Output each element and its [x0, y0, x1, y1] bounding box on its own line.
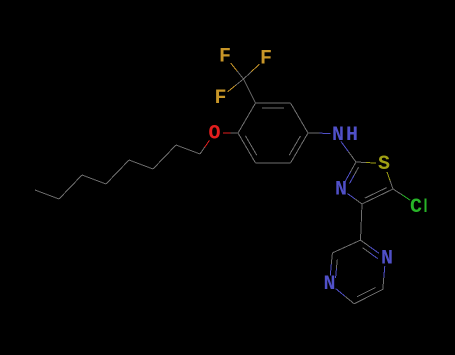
wire: octyl chain bond C5-C6 — [82, 175, 106, 184]
wire: octyl chain bond C6-C7 — [59, 175, 82, 199]
svg-text:F: F — [260, 48, 272, 71]
wire: octyl chain bond C7-C8 — [35, 190, 59, 199]
atom label Cl (l glyph bar) — [425, 199, 427, 213]
wire: thiazole bond C2-S1 — [356, 162, 376, 163]
wire: benzene bond C2=C3 (double) — [256, 103, 291, 108]
svg-text:N: N — [381, 248, 393, 271]
wire: bond O-ring — [223, 132, 238, 134]
wire: benzene bond C6=C1 (double) — [238, 133, 257, 163]
wire: octyl chain bond C2-C3 — [153, 145, 176, 169]
wire: thiazole bond S1-C5 — [387, 172, 393, 189]
svg-text:H: H — [346, 124, 358, 147]
wire: pyrazine bond C6=C5 (double) — [354, 288, 383, 304]
wire: octyl chain bond C1-C2 — [176, 145, 200, 154]
svg-text:C: C — [410, 196, 422, 219]
wire: benzene bond C4=C5 (double) — [289, 133, 308, 163]
svg-text:N: N — [335, 179, 347, 202]
svg-text:O: O — [208, 123, 220, 146]
wire: benzene bond C3-C4 (single) — [291, 103, 309, 133]
wire: benzene bond C1-C2 (single) — [238, 103, 256, 133]
wire: thiazole bond C5=C4 (double) — [362, 188, 393, 204]
wire: bond O-C1 chain — [200, 140, 209, 154]
wire: bond CF3-ring — [244, 79, 256, 103]
wire: thiazole bond C4-N3 — [348, 194, 363, 204]
wire: pyrazine bond C5-N4 (single) — [336, 289, 355, 304]
svg-text:S: S — [378, 153, 390, 176]
wire: thiazole bond N3=C2 (double) — [345, 162, 359, 184]
wire: bond thiazole C4 - pyrazine C2 — [361, 204, 363, 240]
wire: benzene bond C5-C6 (single) — [256, 162, 291, 164]
wire: bond C5-Cl — [393, 189, 410, 200]
wire: bond C-F3 — [228, 79, 244, 92]
wire: bond N(H)-thiazole C2 — [341, 142, 356, 163]
svg-text:N: N — [323, 273, 335, 296]
wire: pyrazine bond C3-C2 (single) — [332, 240, 360, 253]
wire: octyl chain bond C3-C4 — [129, 160, 153, 169]
wire: octyl chain bond C4-C5 — [106, 160, 129, 184]
svg-text:F: F — [219, 46, 231, 69]
wire: bond C-F2 — [244, 64, 260, 79]
svg-text:N: N — [332, 124, 344, 147]
wire: pyrazine bond N4=C3 (double) — [330, 253, 337, 278]
svg-text:F: F — [214, 87, 226, 110]
wire: bond ring-N(H) — [308, 132, 331, 134]
wire: bond C-F1 — [231, 63, 244, 79]
wire: pyrazine bond N1-C6 (single) — [383, 266, 385, 289]
wire: pyrazine bond C2=N1 (double) — [361, 240, 380, 258]
